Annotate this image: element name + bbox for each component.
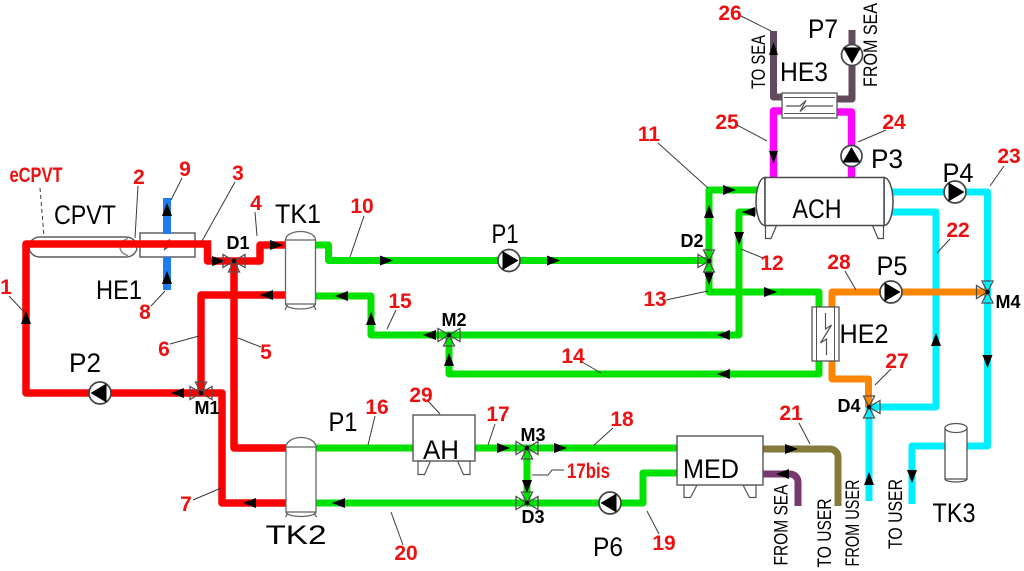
svg-text:TO USER: TO USER [886,479,907,549]
leader 27 [875,369,891,385]
svg-text:P2: P2 [69,348,101,378]
svg-text:D1: D1 [226,233,249,253]
leader 6 [170,336,199,344]
leader 28 [845,271,856,290]
leader 18 [593,428,613,446]
arrow green up 11 [704,205,714,218]
svg-text:16: 16 [365,396,388,419]
svg-text:D2: D2 [680,231,703,251]
wire green 16-17-18 TK2 to AH to M3 to MED [312,445,679,452]
svg-text:11: 11 [638,123,661,146]
svg-text:FROM SEA: FROM SEA [772,484,793,565]
svg-text:14: 14 [561,345,585,368]
wire red 5 D1 to TK2 top [234,261,290,448]
arrow green down 12b [734,232,744,245]
svg-text:29: 29 [409,384,432,407]
arrow green left 12a [742,207,755,217]
svg-text:28: 28 [827,251,851,274]
heat exchanger HE2 [812,307,839,361]
svg-text:7: 7 [180,493,192,516]
arrow cyan up FROM-USER [864,472,874,485]
svg-text:19: 19 [652,532,675,555]
wire green 10 TK1 to P1 to D2 [312,245,709,261]
svg-text:6: 6 [158,338,170,361]
wire cyan 22 ACH to D4 [869,212,936,407]
leader 4 [255,212,257,236]
wire dark-purple FROM SEA top [837,30,852,99]
leader 22 [937,239,950,253]
valve D3 [516,492,538,510]
svg-text:20: 20 [394,542,417,565]
svg-text:AH: AH [423,435,459,465]
svg-text:21: 21 [779,402,803,425]
leader 24 [858,130,886,142]
valve D1 [223,255,245,273]
tank TK1 [285,232,316,311]
arrow plum left FROM-SEA [776,469,789,479]
svg-text:HE3: HE3 [780,57,828,87]
wire green 13 D2 down to HE2 top [709,261,819,310]
svg-text:24: 24 [882,111,906,134]
wire green 15 M2 to TK1 bottom [312,296,449,335]
svg-text:27: 27 [885,350,908,373]
arrow blue up 9 [162,203,172,216]
arrow green down 17bis [522,480,532,493]
leader 25 [737,125,767,141]
svg-text:HE1: HE1 [96,275,142,305]
arrow green up 15 [366,312,376,325]
valve M2 [438,329,460,347]
flow arrows [21,42,993,508]
leader 17 [488,424,495,445]
heat exchanger HE1 [140,233,195,257]
svg-text:26: 26 [718,2,741,25]
wire green 17bis M3 to D3 [524,448,531,503]
arrow green right 10b [547,256,560,266]
leader 17bis [532,470,564,475]
svg-text:9: 9 [179,158,191,181]
wire cyan 23 ACH to P4 to M4 to TK3 to TO USER [882,192,988,504]
arrow cyan up 22 [931,333,941,346]
svg-text:M2: M2 [441,310,466,330]
svg-text:M1: M1 [194,398,219,418]
arrow cyan down TO-USER [907,470,917,483]
wire blue 9 HE1 top [163,198,171,234]
svg-text:13: 13 [643,288,666,311]
leader 10 [350,216,364,257]
leader 8 [151,291,165,306]
svg-text:P1: P1 [492,219,519,249]
svg-text:4: 4 [250,192,262,215]
svg-text:5: 5 [260,341,272,364]
svg-text:TO USER: TO USER [815,499,836,568]
leader 26 [741,16,771,31]
arrow magenta down 25 [769,151,778,164]
arrow green right 17 [497,443,510,453]
wire cyan FROM USER to D4 [866,407,873,501]
wire orange 28 HE2 to P5 to M4 [832,292,988,309]
svg-text:12: 12 [760,252,783,275]
svg-text:3: 3 [232,162,244,185]
chiller ACH vessel [756,178,893,239]
wire green 14 HE2 bottom to M2 [449,335,819,374]
leader 20 [391,512,403,545]
svg-text:TO SEA: TO SEA [749,35,770,89]
svg-text:TK2: TK2 [266,520,327,550]
heat exchanger HE3 [782,93,837,118]
leader 5 [238,338,261,347]
svg-text:TK3: TK3 [933,498,976,528]
wire dark-purple TO SEA 26 [774,31,783,97]
arrow green left M2out [423,330,436,340]
pump P2 [89,382,111,404]
wire magenta 25 HE3 to ACH [774,111,783,180]
arrow green left 15b [335,291,348,301]
svg-text:ACH: ACH [793,194,842,224]
valve D2 [698,250,715,272]
valve M1 [190,382,212,400]
collector CPVT body [29,237,137,257]
svg-text:P6: P6 [593,532,623,562]
pump P6 [599,492,621,514]
pump P1 [498,250,520,272]
arrow blue up 8 [162,271,172,284]
svg-text:D3: D3 [521,507,544,527]
svg-text:P7: P7 [808,14,838,44]
svg-text:D4: D4 [837,396,860,416]
wire plum FROM SEA to MED [761,474,798,506]
svg-text:2: 2 [133,166,145,189]
wire green 20 TK2 bottom to D3 to P6 to MED [312,473,679,503]
arrow green left 20 [332,498,345,508]
wire magenta 24 HE3 to P3 to ACH [837,112,852,180]
svg-text:15: 15 [388,290,412,313]
heater AH box [413,415,475,475]
arrow red right TK1 [270,240,283,250]
arrow purple up TO-SEA [769,42,778,55]
wire red 7 TK2 bottom to M1 [201,393,290,503]
svg-text:TK1: TK1 [275,199,321,229]
leader 13 [666,291,708,300]
arrow green left 14 [717,369,730,379]
svg-text:MED: MED [683,454,739,484]
valve D4 [864,396,881,418]
wire red HE1 to D1 jog [208,241,235,261]
leader 16 [368,416,375,445]
svg-text:8: 8 [139,301,151,324]
wire green 12 ACH out down to M2 line [449,212,756,335]
leader 19 [647,511,659,534]
svg-text:17: 17 [486,403,509,426]
svg-text:P1: P1 [329,407,358,437]
leader 1 [9,296,25,313]
arrow red right D1 [212,256,225,266]
pump P3 [841,146,862,167]
svg-text:P5: P5 [877,251,908,281]
arrow red left P2 [171,388,184,398]
leader 11 [658,143,708,188]
svg-text:P3: P3 [871,144,903,174]
leader 15 [387,310,396,329]
leader 7 [193,488,221,500]
arrow green left 12c [717,330,730,340]
valve M4 [977,281,994,303]
leader 2 [135,186,138,238]
wire green 11 D2 up to ACH [709,190,758,261]
wire red CPVT loop (left vertical + top run) [26,244,211,393]
arrow cyan down 23 [983,355,993,368]
wire orange 27 HE2 to D4 [832,359,869,407]
svg-text:eCPVT: eCPVT [10,164,63,187]
arrow green right 18 [554,443,567,453]
arrow green right 11b [723,185,736,195]
pump P7 [842,45,863,66]
leader 9 [171,178,182,200]
leader 23 [990,166,1004,186]
wire khaki 21 MED to TO USER [761,449,838,506]
tank TK3 [945,424,967,483]
arrow green up M2 [444,353,454,366]
pump P4 [944,181,966,203]
svg-text:22: 22 [946,219,969,242]
svg-text:M3: M3 [520,425,545,445]
valve M3 [516,442,538,460]
wire red D1 to TK1 top [234,245,290,261]
desalination MED box [677,436,763,498]
svg-text:FROM USER: FROM USER [843,480,864,567]
svg-text:M4: M4 [995,292,1020,312]
leader 21 [799,423,810,444]
svg-text:1: 1 [0,276,12,299]
svg-text:17bis: 17bis [567,460,610,483]
wire blue 8 HE1 bottom [163,257,171,290]
arrow red left TK1-bottom [260,290,273,300]
svg-text:HE2: HE2 [840,319,889,349]
svg-text:23: 23 [997,145,1020,168]
leader 12 [741,249,763,258]
wire red 6 TK1 bottom to M1 [201,295,290,393]
leader 29 [428,401,440,414]
arrow red up 1 [21,311,31,324]
leader eCPVT [40,188,44,236]
arrow green down 13a [704,272,714,285]
svg-text:CPVT: CPVT [54,200,116,230]
arrow khaki right 21 [785,444,798,454]
arrow green right 13b [764,287,777,297]
svg-text:10: 10 [350,195,373,218]
pump P5 [880,281,902,303]
arrow red left 7 [243,498,256,508]
svg-text:25: 25 [715,111,739,134]
tank TK2 [286,438,317,518]
svg-text:FROM SEA: FROM SEA [861,3,882,87]
leader 3 [202,182,235,241]
svg-text:P4: P4 [943,158,974,188]
svg-text:18: 18 [610,408,634,431]
arrow green right 10a [380,256,393,266]
leader 14 [582,362,601,373]
